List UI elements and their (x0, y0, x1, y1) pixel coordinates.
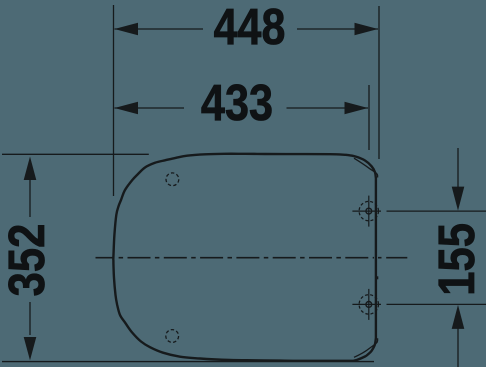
centerline horizontal (chain) (96, 257, 375, 259)
dim 448: extension line left (113, 5, 115, 196)
arrow 155 bottom (up) (452, 305, 465, 329)
lid edge offset arc top-right (354, 158, 378, 177)
dim 155: extension line bottom (387, 303, 486, 305)
dim 155: extension line top (387, 210, 486, 212)
dim 433: extension line right (368, 85, 370, 150)
dim 352: extension line top (2, 153, 149, 155)
svg-text:448: 448 (214, 0, 286, 55)
arrow 448 right (355, 23, 379, 36)
hinge hole bottom: vertical centerline (368, 289, 370, 320)
svg-text:352: 352 (0, 224, 56, 297)
dim 448: line right (297, 28, 378, 30)
dim 352: extension line bottom (2, 361, 374, 363)
lid edge offset arc bottom-right (354, 338, 378, 357)
dim 155: line above (457, 148, 459, 187)
dim 448: line left (115, 28, 204, 30)
arrow 352 top (24, 157, 37, 181)
hinge hole bottom: horizontal centerline (352, 303, 381, 305)
lid edge tick between holes (377, 276, 379, 279)
seat outline (113, 154, 376, 361)
dim 433: line left (115, 107, 185, 109)
bumper dashed circle bottom (166, 330, 179, 343)
dim 352: line lower (29, 302, 31, 335)
hinge hole top: horizontal centerline (352, 210, 381, 212)
arrow 433 right (345, 102, 369, 115)
dim 433: line right (287, 107, 369, 109)
arrow 155 top (down) (452, 187, 465, 211)
dim 448: extension line right (378, 6, 380, 159)
arrow 352 bottom (24, 337, 37, 360)
hinge hole bottom: dashed circle (359, 295, 378, 314)
dim 352: line upper (29, 178, 31, 217)
svg-text:155: 155 (429, 223, 486, 296)
hinge hole bottom: center ring (366, 302, 372, 308)
hinge hole top: dashed circle (359, 201, 378, 220)
bumper dashed circle top (166, 173, 179, 186)
arrow 448 left (115, 23, 139, 36)
hinge hole top: vertical centerline (368, 196, 370, 227)
arrow 433 left (115, 102, 139, 115)
svg-text:433: 433 (201, 74, 273, 131)
hinge hole top: center ring (366, 208, 372, 214)
dim 155: line below (457, 329, 459, 367)
